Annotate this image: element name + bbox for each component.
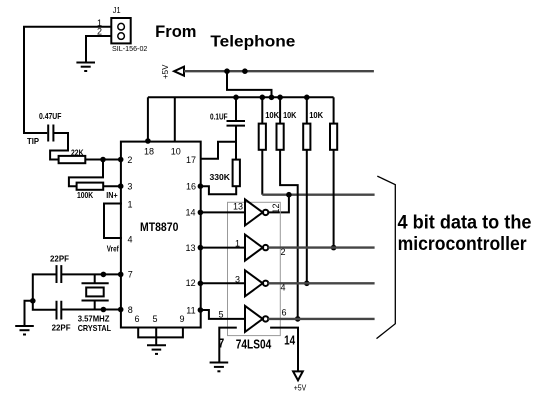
node chip pin 16 (198, 183, 204, 189)
ground at crystal (15, 325, 34, 327)
svg-text:MT8870: MT8870 (140, 220, 179, 234)
wire chip pin12 to inverter C (200, 282, 245, 284)
svg-text:5: 5 (218, 309, 223, 319)
svg-text:TIP: TIP (27, 136, 39, 146)
capacitor C 0.1UF (235, 97, 237, 121)
svg-text:7: 7 (128, 269, 133, 279)
capacitor C 22PF bottom plates (57, 301, 62, 320)
node chip pin 18 (145, 138, 151, 144)
svg-text:6: 6 (282, 308, 287, 318)
svg-text:4: 4 (128, 235, 133, 245)
inverter U2C bubble (263, 281, 268, 286)
svg-text:Telephone: Telephone (210, 34, 295, 51)
svg-text:5: 5 (152, 314, 157, 324)
inverter U2B triangle (245, 235, 263, 261)
connector J1 body (111, 18, 130, 43)
wire 22K to chip pin 2 (85, 159, 122, 161)
wire loop chip pin1 to pin4 (104, 204, 122, 239)
node bus feed (269, 95, 275, 101)
node row3 R3 junction (304, 281, 310, 287)
svg-text:SIL-156-02: SIL-156-02 (112, 44, 147, 53)
wire R2 bottom to row4 (280, 150, 298, 319)
svg-text:10K: 10K (265, 110, 280, 120)
wire R3 bottom to row3 (306, 150, 308, 283)
resistor R4 10K top lead (333, 97, 335, 123)
node chip pin 7 (118, 272, 124, 278)
node on pin8 line (101, 307, 107, 313)
wire junction to 100K (69, 160, 103, 187)
svg-text:100K: 100K (77, 190, 94, 200)
svg-text:14: 14 (284, 332, 296, 347)
wire R4 bottom to row2 (333, 150, 335, 248)
connector J1 pin circle 2 (118, 33, 125, 40)
node chip pin 2 (118, 157, 124, 163)
IC U1 MT8870 body (121, 142, 201, 328)
resistor R2 10K top lead (279, 97, 281, 123)
inverter U2A triangle (245, 199, 263, 225)
svg-text:+5V: +5V (294, 384, 307, 393)
svg-text:14: 14 (185, 208, 195, 218)
node bus 0.1UF (233, 95, 239, 101)
svg-text:From: From (155, 23, 196, 41)
node bus R1 (260, 95, 266, 101)
resistor R2 10K body (277, 124, 284, 150)
svg-text:0.47UF: 0.47UF (39, 111, 61, 121)
wire chip pin13 to inverter B (200, 247, 245, 249)
svg-text:4 bit data to the: 4 bit data to the (398, 212, 532, 234)
svg-text:17: 17 (186, 155, 196, 165)
resistor 330K body (233, 160, 240, 187)
svg-text:microcontroller: microcontroller (398, 233, 527, 255)
node chip pin 11 (198, 307, 204, 313)
ground at J1 (76, 62, 95, 64)
svg-text:74LS04: 74LS04 (236, 337, 272, 352)
svg-text:J1: J1 (113, 5, 121, 15)
svg-text:10: 10 (171, 146, 181, 156)
inverter U2D triangle (245, 306, 263, 332)
node row4 R2 junction (295, 316, 301, 322)
wire data row 1 (262, 193, 374, 195)
node chip pin 8 (118, 307, 124, 313)
resistor R3 10K top lead (306, 97, 308, 123)
svg-text:6: 6 (134, 314, 139, 324)
svg-text:8: 8 (128, 305, 133, 315)
svg-text:10K: 10K (283, 110, 297, 120)
wire pin7 line (61, 273, 122, 275)
wire J1 pin2 to ground (86, 36, 111, 63)
svg-text:13: 13 (185, 243, 195, 253)
wire 100K to chip pin 3 (103, 185, 122, 187)
svg-text:+5V: +5V (161, 64, 170, 79)
svg-text:3: 3 (235, 274, 240, 284)
wire bus to chip pin 10 (174, 97, 176, 142)
node junction after 22K (100, 157, 106, 163)
wire junction to ground (25, 301, 33, 326)
wire inverter1 output riser (268, 195, 289, 213)
wire data row 3 (268, 282, 374, 284)
node row2 R4 junction (331, 245, 337, 251)
resistor 100K body (77, 183, 104, 190)
svg-text:22PF: 22PF (50, 253, 69, 263)
svg-text:1: 1 (128, 200, 133, 210)
node bus R2 (277, 95, 283, 101)
svg-text:3: 3 (127, 181, 132, 191)
svg-text:18: 18 (144, 146, 154, 156)
wire 22PF top left to ground junction (33, 274, 57, 309)
wire chip pin14 to inverter A (200, 211, 245, 213)
capacitor C 0.47UF plates (48, 125, 53, 142)
svg-text:1: 1 (235, 239, 240, 249)
wire 74LS04 pin14 stub to +5V (270, 328, 298, 372)
crystal X1 bottom lead (82, 301, 109, 310)
svg-text:16: 16 (186, 181, 196, 191)
node on +5V rail 2 (242, 68, 248, 74)
svg-text:330K: 330K (210, 172, 231, 182)
node chip pin 3 (118, 183, 124, 189)
node row1 inverter output (286, 192, 292, 198)
svg-text:22K: 22K (71, 147, 84, 157)
svg-text:0.1UF: 0.1UF (210, 112, 228, 122)
node chip pin 13 (198, 245, 204, 251)
svg-text:Vref: Vref (107, 244, 119, 254)
svg-text:9: 9 (179, 314, 184, 324)
bracket for 4-bit data (377, 176, 396, 339)
node on +5V rail 1 (224, 68, 230, 74)
svg-text:CRYSTAL: CRYSTAL (78, 323, 111, 333)
svg-text:12: 12 (186, 278, 196, 288)
wire +5V feed to bus (227, 71, 272, 97)
inverter U2B bubble (263, 245, 268, 250)
wire chip pin 16 to 330K bottom (200, 186, 236, 194)
inverter U2A bubble (263, 210, 268, 215)
node ground junction (30, 298, 36, 304)
crystal X1 body (86, 288, 104, 297)
ground at 74LS04 (210, 362, 229, 364)
IC U2 74LS04 outline box (228, 202, 281, 335)
wire data row 4 (268, 318, 374, 320)
inverter U2C triangle (245, 270, 263, 296)
connector J1 pin circle 1 (118, 23, 125, 30)
ground below chip (147, 344, 166, 346)
wire supply bus (148, 96, 334, 98)
svg-text:IN+: IN+ (106, 190, 117, 200)
svg-text:11: 11 (186, 306, 195, 316)
wire R1 bottom to row1 (261, 150, 263, 195)
wire J1 pin1 to TIP vertical (24, 27, 111, 133)
wire +5V rail (184, 70, 374, 72)
inverter U2D bubble (263, 316, 268, 321)
wire chip pin 17 to 0.1UF/330K (200, 142, 236, 159)
node chip pin 14 (198, 210, 204, 216)
svg-text:7: 7 (218, 336, 224, 351)
wire 74LS04 pin7 stub to ground (219, 328, 237, 362)
crystal X1 top lead (82, 274, 109, 283)
svg-text:13: 13 (233, 202, 243, 212)
wire chip bottom pins 6,5,9 to ground (138, 327, 183, 345)
resistor 22K body (59, 156, 86, 163)
resistor R4 10K body (330, 124, 337, 150)
wire data row 2 (268, 246, 374, 248)
resistor R3 10K body (303, 124, 310, 150)
svg-text:12: 12 (271, 203, 281, 213)
node bus R3 (304, 95, 310, 101)
svg-text:10K: 10K (309, 110, 324, 120)
svg-text:2: 2 (127, 155, 132, 165)
power +5V arrow top (174, 67, 184, 76)
capacitor C 22PF top plates (57, 265, 62, 283)
power +5V arrow bottom (293, 371, 303, 380)
resistor R1 10K top lead (261, 97, 263, 123)
wire chip pin11 to inverter D (200, 310, 245, 319)
resistor R1 10K body (259, 124, 266, 150)
svg-text:22PF: 22PF (52, 323, 71, 333)
wire pin8 line (61, 309, 122, 311)
node on pin7 line (101, 272, 107, 278)
wire 0.47UF to 22K (50, 133, 68, 160)
node chip pin 12 (198, 281, 204, 287)
wire bus to chip pin 18 (147, 97, 149, 142)
